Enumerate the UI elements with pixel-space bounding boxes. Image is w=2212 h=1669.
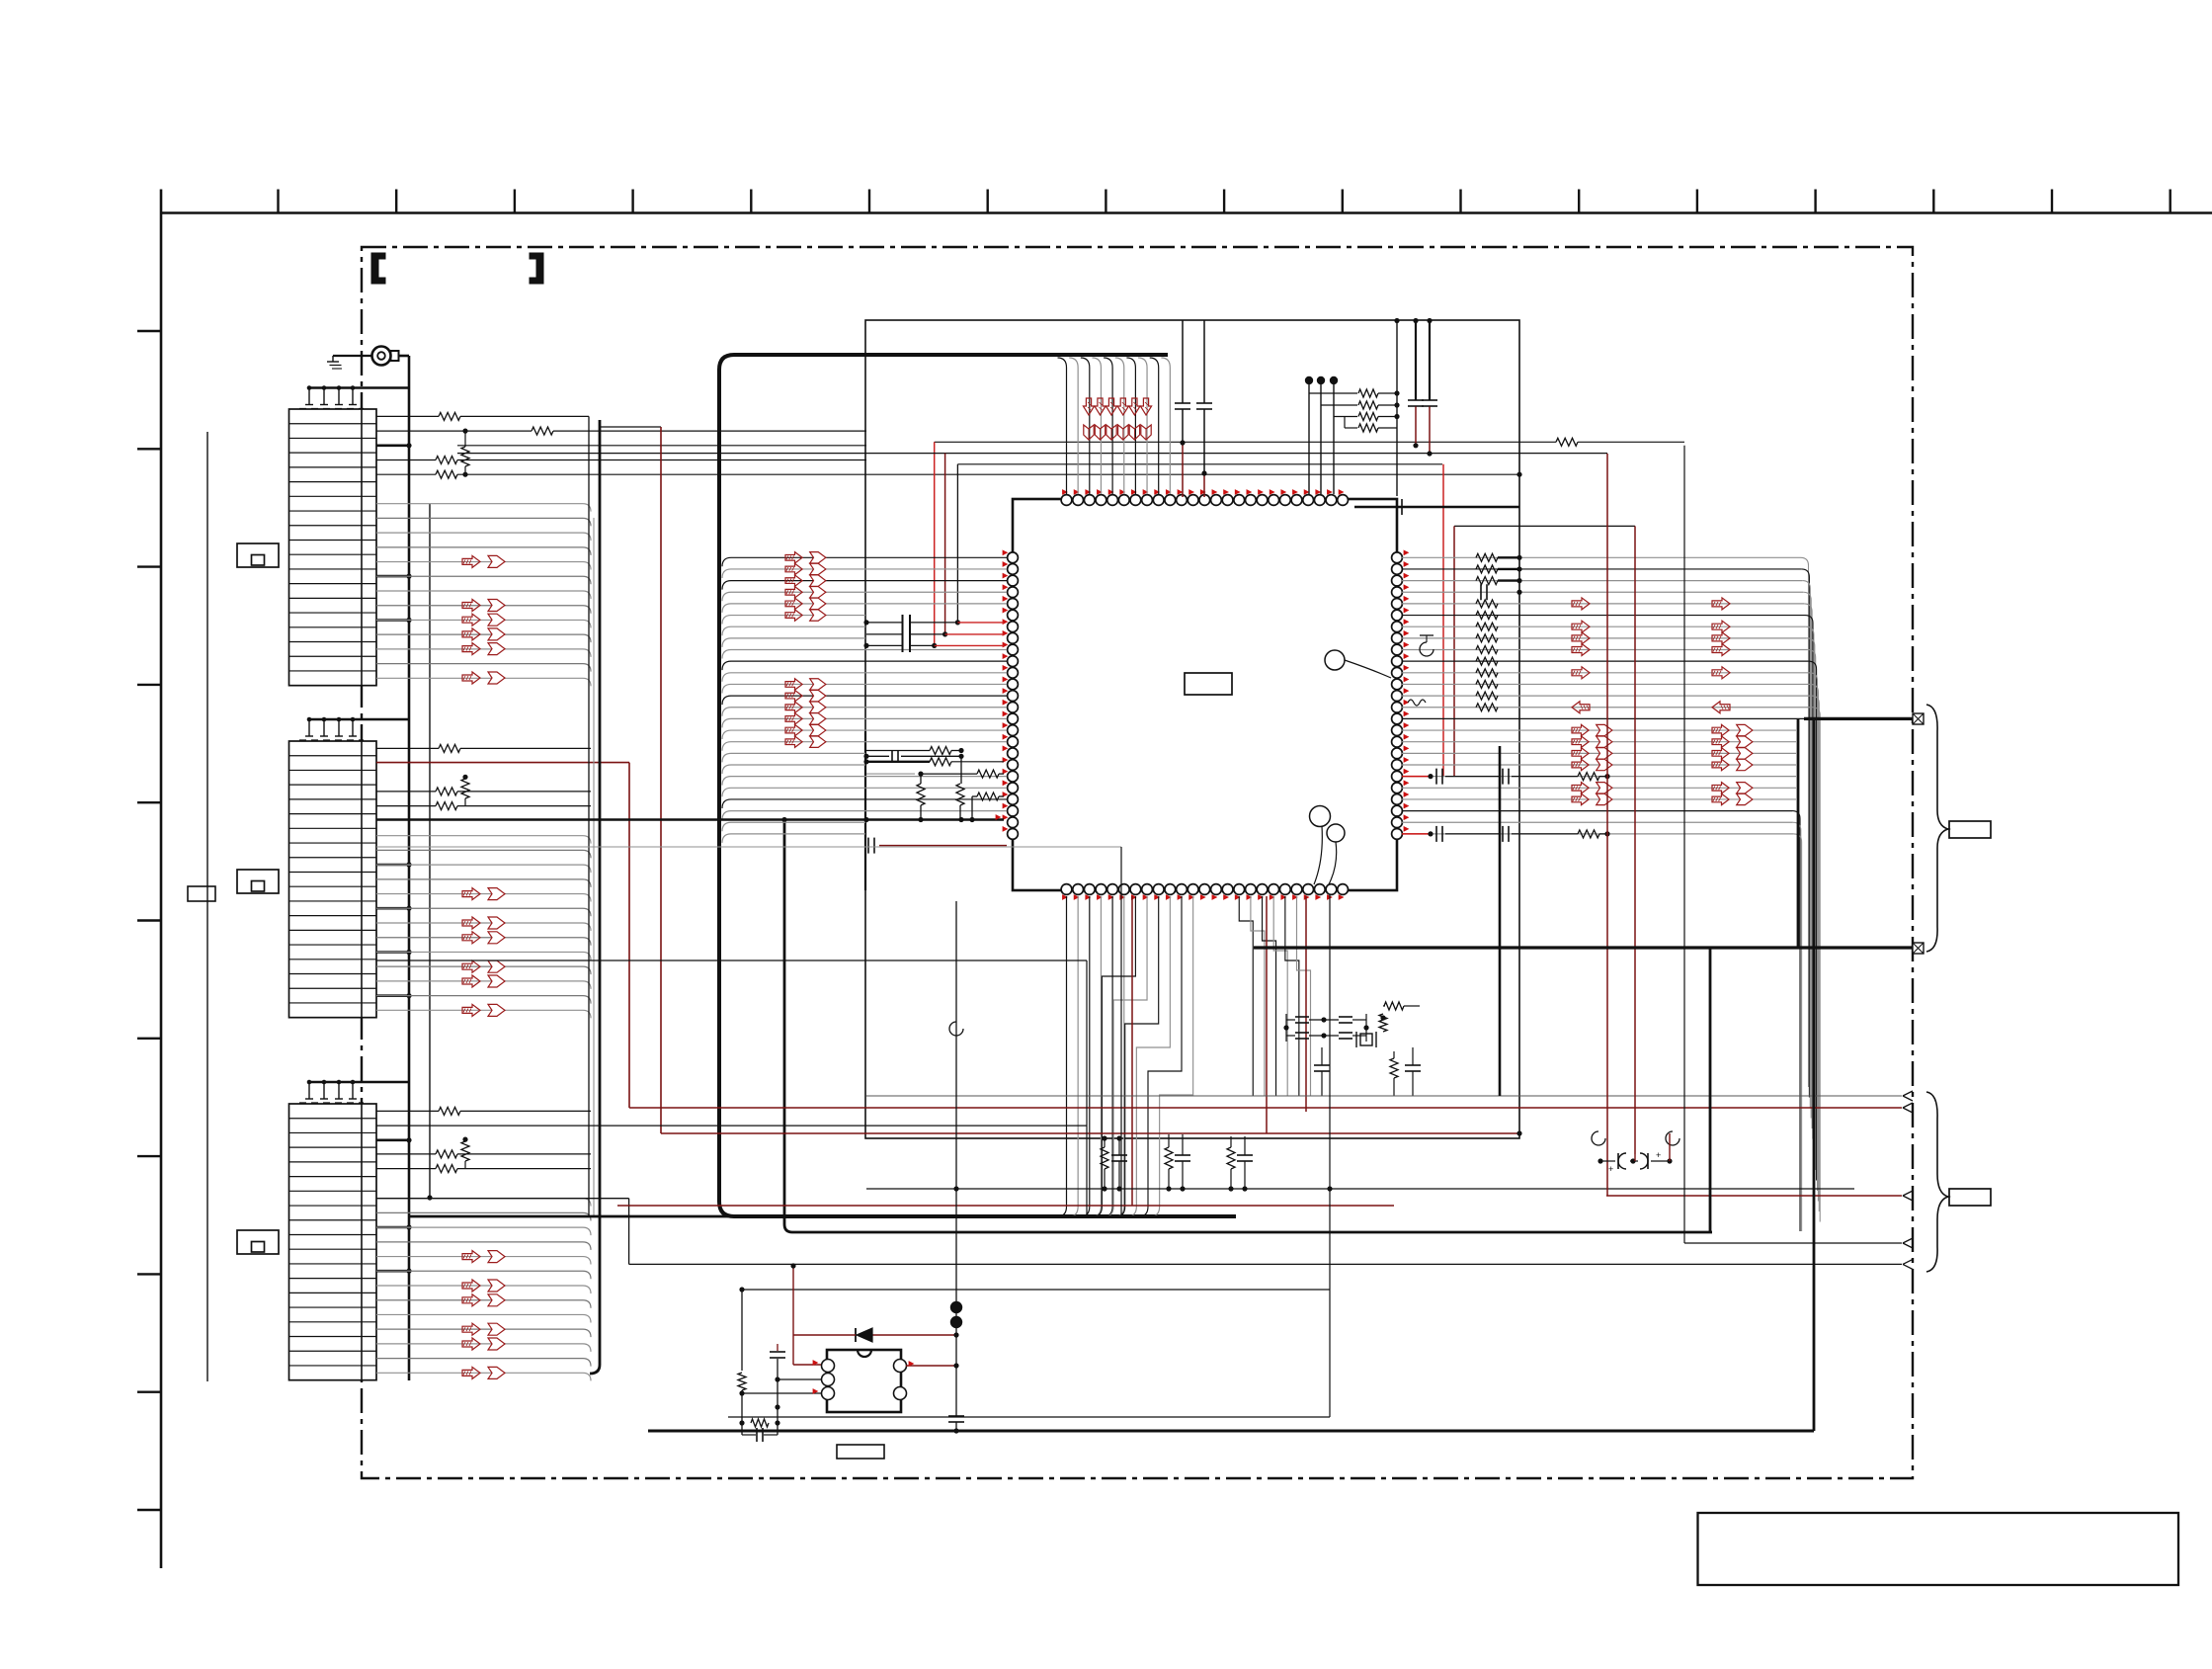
net 450 to box — [457, 445, 866, 447]
signal flow arrow pair — [462, 1323, 480, 1335]
resistor R21 — [376, 747, 439, 749]
bold vertical 1836 — [1813, 718, 1816, 1431]
bold net 1247 — [792, 1231, 1712, 1234]
connector CN2 body — [289, 741, 377, 1018]
IC U2 pin 2 — [822, 1374, 835, 1386]
ground return net — [866, 1188, 1854, 1190]
resistor R15 — [376, 473, 436, 475]
brace 2 — [1926, 1092, 1948, 1272]
junction bus end — [427, 1195, 432, 1200]
ground bus above connector — [309, 718, 409, 720]
resistor R13 vertical — [461, 447, 469, 466]
resistor R23 — [376, 791, 436, 793]
signal flow arrow pair — [462, 1280, 480, 1292]
balloon reference 2 — [1310, 806, 1331, 827]
electrolytic capacitor pair — [1592, 1131, 1605, 1145]
red net U2 pin8 — [906, 1365, 956, 1367]
connector CN3 body — [289, 1104, 377, 1380]
resistor R11 — [376, 415, 439, 417]
long net wire B — [457, 453, 1607, 455]
bold bus vertical — [590, 420, 600, 1374]
red net bottom 2 — [1266, 896, 1268, 1133]
left row arrows group 1 — [785, 552, 802, 563]
net wire 1281 — [629, 1263, 1902, 1265]
red net bottom 3 — [1305, 896, 1307, 1112]
net wire red 1210 — [1606, 1195, 1902, 1197]
IC U1 pin arrows right — [1404, 550, 1409, 555]
net corner red 946 — [934, 442, 936, 645]
inductor right — [1408, 700, 1426, 706]
net wire 1139 — [376, 1125, 1087, 1127]
bottom bus staircase group C — [1239, 896, 1253, 1096]
decoupling symbol right — [1420, 642, 1434, 656]
IC U1 pin arrows left — [1003, 550, 1008, 555]
net rows at cap C7 — [866, 622, 903, 624]
red vertical 1472 — [1453, 526, 1455, 777]
signal flow arrow pair — [462, 888, 480, 900]
long net wire E — [1454, 525, 1635, 527]
connector signal row wires — [376, 504, 591, 512]
left label box — [188, 886, 215, 901]
resistor R44 — [1345, 427, 1357, 429]
IC U2 body — [827, 1350, 901, 1412]
net wire 1109 — [866, 1095, 1902, 1097]
signal flow arrow pair — [462, 555, 480, 567]
IC U1 pin arrows bottom — [1063, 895, 1068, 900]
IC corner feed line — [1396, 321, 1398, 497]
capacitor C12 — [1314, 1064, 1330, 1066]
net wire red 1147 — [661, 1132, 1519, 1134]
terminal lug — [372, 347, 391, 366]
resistor R74 vertical — [956, 784, 964, 805]
wire jog — [601, 426, 661, 428]
RC filter cluster 3 — [1227, 1147, 1235, 1169]
capacitor C21 — [777, 1344, 778, 1351]
box edge emphasis — [864, 731, 866, 890]
crystal oscillator cluster — [1295, 1016, 1309, 1018]
connector bold pin stubs — [376, 444, 409, 447]
vertical net 1346 — [1329, 894, 1331, 1417]
connector CN1 inner column line — [361, 409, 363, 686]
net wire red 1125 — [629, 1107, 1902, 1109]
bottom bus staircase group B — [1093, 896, 1135, 1216]
signal flow arrow pair — [462, 600, 480, 612]
red net bottom 1 — [1131, 896, 1133, 1206]
signal flow arrow pair — [462, 917, 480, 929]
right bracket glyph — [530, 253, 543, 284]
net wire 857 — [376, 846, 1121, 848]
diode D1 — [872, 1334, 956, 1336]
signal flow arrow pair — [462, 1004, 480, 1016]
red net U2 pin1 — [792, 1266, 794, 1365]
capacitor C13 — [1405, 1064, 1421, 1066]
resistor R52 vertical — [1390, 1058, 1398, 1078]
signal flow arrow pair — [462, 1338, 480, 1350]
signal flow arrow pair — [462, 628, 480, 640]
brace 1 — [1926, 705, 1948, 952]
wire lug to vertical bus — [399, 355, 410, 358]
resistor R34 — [376, 1168, 436, 1170]
signal flow arrow pair — [462, 975, 480, 987]
red bus vertical B — [660, 427, 662, 1133]
red vertical 1655 — [1634, 526, 1636, 1154]
connector ref designator box 2 — [237, 870, 279, 893]
dash-dot enclosure border — [362, 247, 1913, 1478]
resistor R42 — [1321, 404, 1357, 406]
left bracket glyph — [371, 253, 385, 284]
capacitor C10 — [891, 750, 893, 762]
ruler top ticks — [277, 190, 279, 213]
bold vertical 1820 — [1797, 718, 1800, 948]
svg-text:+: + — [1656, 1150, 1661, 1160]
capacitor C11 — [1480, 584, 1482, 600]
balloon reference 1 — [1325, 650, 1345, 670]
capacitor C20 — [948, 1415, 964, 1417]
connector label box 1 — [1949, 821, 1991, 838]
title block box — [1698, 1513, 2179, 1585]
red net from connector CN2 — [376, 762, 629, 764]
ground bus above connector — [309, 386, 409, 388]
bold bus top box — [719, 355, 1236, 1216]
signal flow arrow pair — [462, 1367, 480, 1378]
resistor R60 vertical — [741, 1291, 743, 1371]
chassis ground symbol — [332, 356, 334, 362]
connector signal row wires — [376, 1199, 591, 1207]
net wire 1431 — [728, 1416, 1330, 1418]
IC U2 pin 3 — [822, 1387, 835, 1400]
crystal X1 — [1360, 1034, 1372, 1045]
signal flow arrow pair — [462, 932, 480, 944]
interface net row14 — [1402, 717, 1804, 719]
ground bus above connector — [309, 1081, 409, 1083]
bottom bus staircase group A — [1058, 896, 1067, 1216]
connector signal row wires — [376, 836, 591, 844]
connector label box 2 — [1949, 1189, 1991, 1206]
signal flow arrow pair — [462, 960, 480, 972]
IC U1 top pins — [1061, 495, 1072, 506]
IC U1 right pins — [1392, 552, 1403, 563]
connector CN2 inner column line — [361, 741, 363, 1018]
connector ref designator box 1 — [237, 543, 279, 567]
ruler horizontal line — [161, 211, 2212, 214]
resistor R22 vertical — [461, 779, 469, 798]
left row arrows group 2 — [785, 679, 802, 690]
long net wire A — [935, 441, 1556, 443]
right arrow column A — [1572, 598, 1590, 610]
bus down-arrows red — [1083, 398, 1094, 415]
bold vertical 1518 — [1499, 746, 1502, 1096]
compensation network row 2 — [1402, 833, 1431, 835]
U2 label box — [837, 1445, 884, 1459]
capacitor C7 large — [902, 615, 904, 652]
connector CN3 inner column line — [361, 1104, 363, 1380]
right arrow column B — [1712, 598, 1730, 610]
resistor R72 — [866, 773, 915, 775]
power junction trio — [1305, 376, 1313, 384]
left pin net rows — [722, 557, 1007, 566]
ruler left ticks — [137, 330, 161, 332]
connector ref designator box 3 — [237, 1230, 279, 1254]
thin net box — [865, 320, 1519, 1138]
bold vertical 1731 — [1709, 948, 1712, 1232]
IC U1 pin arrows top — [1063, 490, 1068, 495]
vertical net 1705 — [1683, 446, 1685, 1243]
wire ground to lug — [333, 355, 371, 357]
vertical net 968 — [955, 901, 957, 1413]
RC filter cluster 2 — [1165, 1147, 1173, 1169]
vertical net 1100 — [1086, 960, 1088, 1216]
capacitor C2 — [1203, 320, 1205, 403]
compensation network row 1 — [1402, 776, 1431, 778]
red vertical 1626 — [1606, 454, 1608, 1196]
net wire 972 — [376, 960, 1087, 961]
vertical bus wire thick — [408, 356, 411, 1380]
signal flow arrow pair — [462, 643, 480, 655]
net corner dark 957 — [944, 454, 946, 634]
signal flow arrow pair — [462, 1294, 480, 1306]
IC U1 part number box — [1185, 673, 1232, 695]
resistor R41 — [1309, 392, 1357, 394]
capacitor C3 — [1415, 320, 1417, 400]
net corner 969 — [956, 464, 958, 623]
resistor R14 — [376, 459, 436, 461]
resistor R12 — [376, 430, 532, 432]
interface net bold to X2 — [1254, 946, 1913, 949]
resistor R51 vertical — [1379, 1014, 1387, 1032]
IC U1 bottom pins — [1061, 884, 1072, 895]
RC filter cluster 1 — [1101, 1147, 1108, 1169]
vertical bus wire thin — [429, 504, 431, 1198]
signal flow arrow pair — [462, 614, 480, 626]
svg-text:+: + — [1608, 1164, 1613, 1174]
right pin net rows — [1402, 556, 1801, 558]
interface net bold row14 — [1804, 717, 1913, 720]
ruler vertical line — [160, 190, 163, 1569]
IC U2 pin 1 — [822, 1360, 835, 1373]
corner vertical 637 — [628, 1199, 630, 1265]
resistor R71 bold net — [866, 761, 930, 763]
boxed-X terminal 2 — [1913, 943, 1924, 954]
long net wire C2 — [957, 463, 1442, 465]
resistor R73 vertical — [917, 784, 925, 805]
IC U1 left pins — [1008, 552, 1019, 563]
net conn3 row6 to corner — [376, 1198, 629, 1200]
right junction dots — [1498, 556, 1519, 558]
resistor R61 — [751, 1419, 769, 1427]
wire bundle vertical left 2 — [593, 518, 595, 1216]
bold net 1231 — [409, 1215, 1236, 1218]
net wire 1258 — [1684, 1242, 1902, 1244]
IC U2 pin 8 — [894, 1360, 907, 1373]
resistor R33 — [376, 1153, 436, 1155]
loop symbol on 968 — [949, 1022, 963, 1036]
left reference line — [206, 432, 208, 1381]
net U2 pin2 — [778, 1378, 821, 1380]
resistor R43 — [1334, 416, 1357, 418]
bold vertical 794 — [784, 820, 792, 1233]
resistor R70 — [866, 750, 930, 752]
connector CN1 body — [289, 409, 377, 686]
red bus vertical CN2 — [628, 763, 630, 1108]
net wire 1448 — [648, 1430, 1814, 1433]
resistor R75 — [971, 796, 973, 820]
resistor R31 — [376, 1110, 439, 1112]
net wire red 1220 — [617, 1205, 1394, 1207]
net wire 1305 — [742, 1289, 1330, 1291]
IC U2 pin 6 — [894, 1387, 907, 1400]
capacitor C9 — [867, 838, 869, 854]
resistor R50 — [1384, 1002, 1404, 1010]
boxed-X terminal 1 — [1913, 713, 1924, 724]
wire bundle vertical left — [588, 416, 590, 1216]
right resistor ladder — [1476, 553, 1498, 561]
capacitor C22 — [756, 1428, 758, 1442]
red vertical 1462 — [1442, 464, 1444, 777]
IC U1 body — [1013, 499, 1397, 890]
top bus wires — [1058, 358, 1067, 494]
balloon reference 3 — [1327, 824, 1345, 842]
arrow-in terminals at border — [1903, 1091, 1913, 1096]
bold net row conn2 — [376, 818, 1004, 821]
capacitor C4 — [1429, 320, 1431, 400]
vertical net 1135 — [1120, 847, 1122, 1216]
net U2 pin3 — [742, 1392, 821, 1394]
capacitor C1 — [1182, 320, 1184, 403]
signal flow arrow pair — [462, 672, 480, 684]
signal flow arrow pair — [462, 1251, 480, 1263]
red stub electrolytic — [1669, 1133, 1671, 1161]
resistor R32 vertical — [461, 1141, 469, 1161]
resistor R24 — [376, 805, 436, 807]
junction dots 968 — [950, 1301, 962, 1313]
bold pin net right top — [1354, 506, 1519, 508]
